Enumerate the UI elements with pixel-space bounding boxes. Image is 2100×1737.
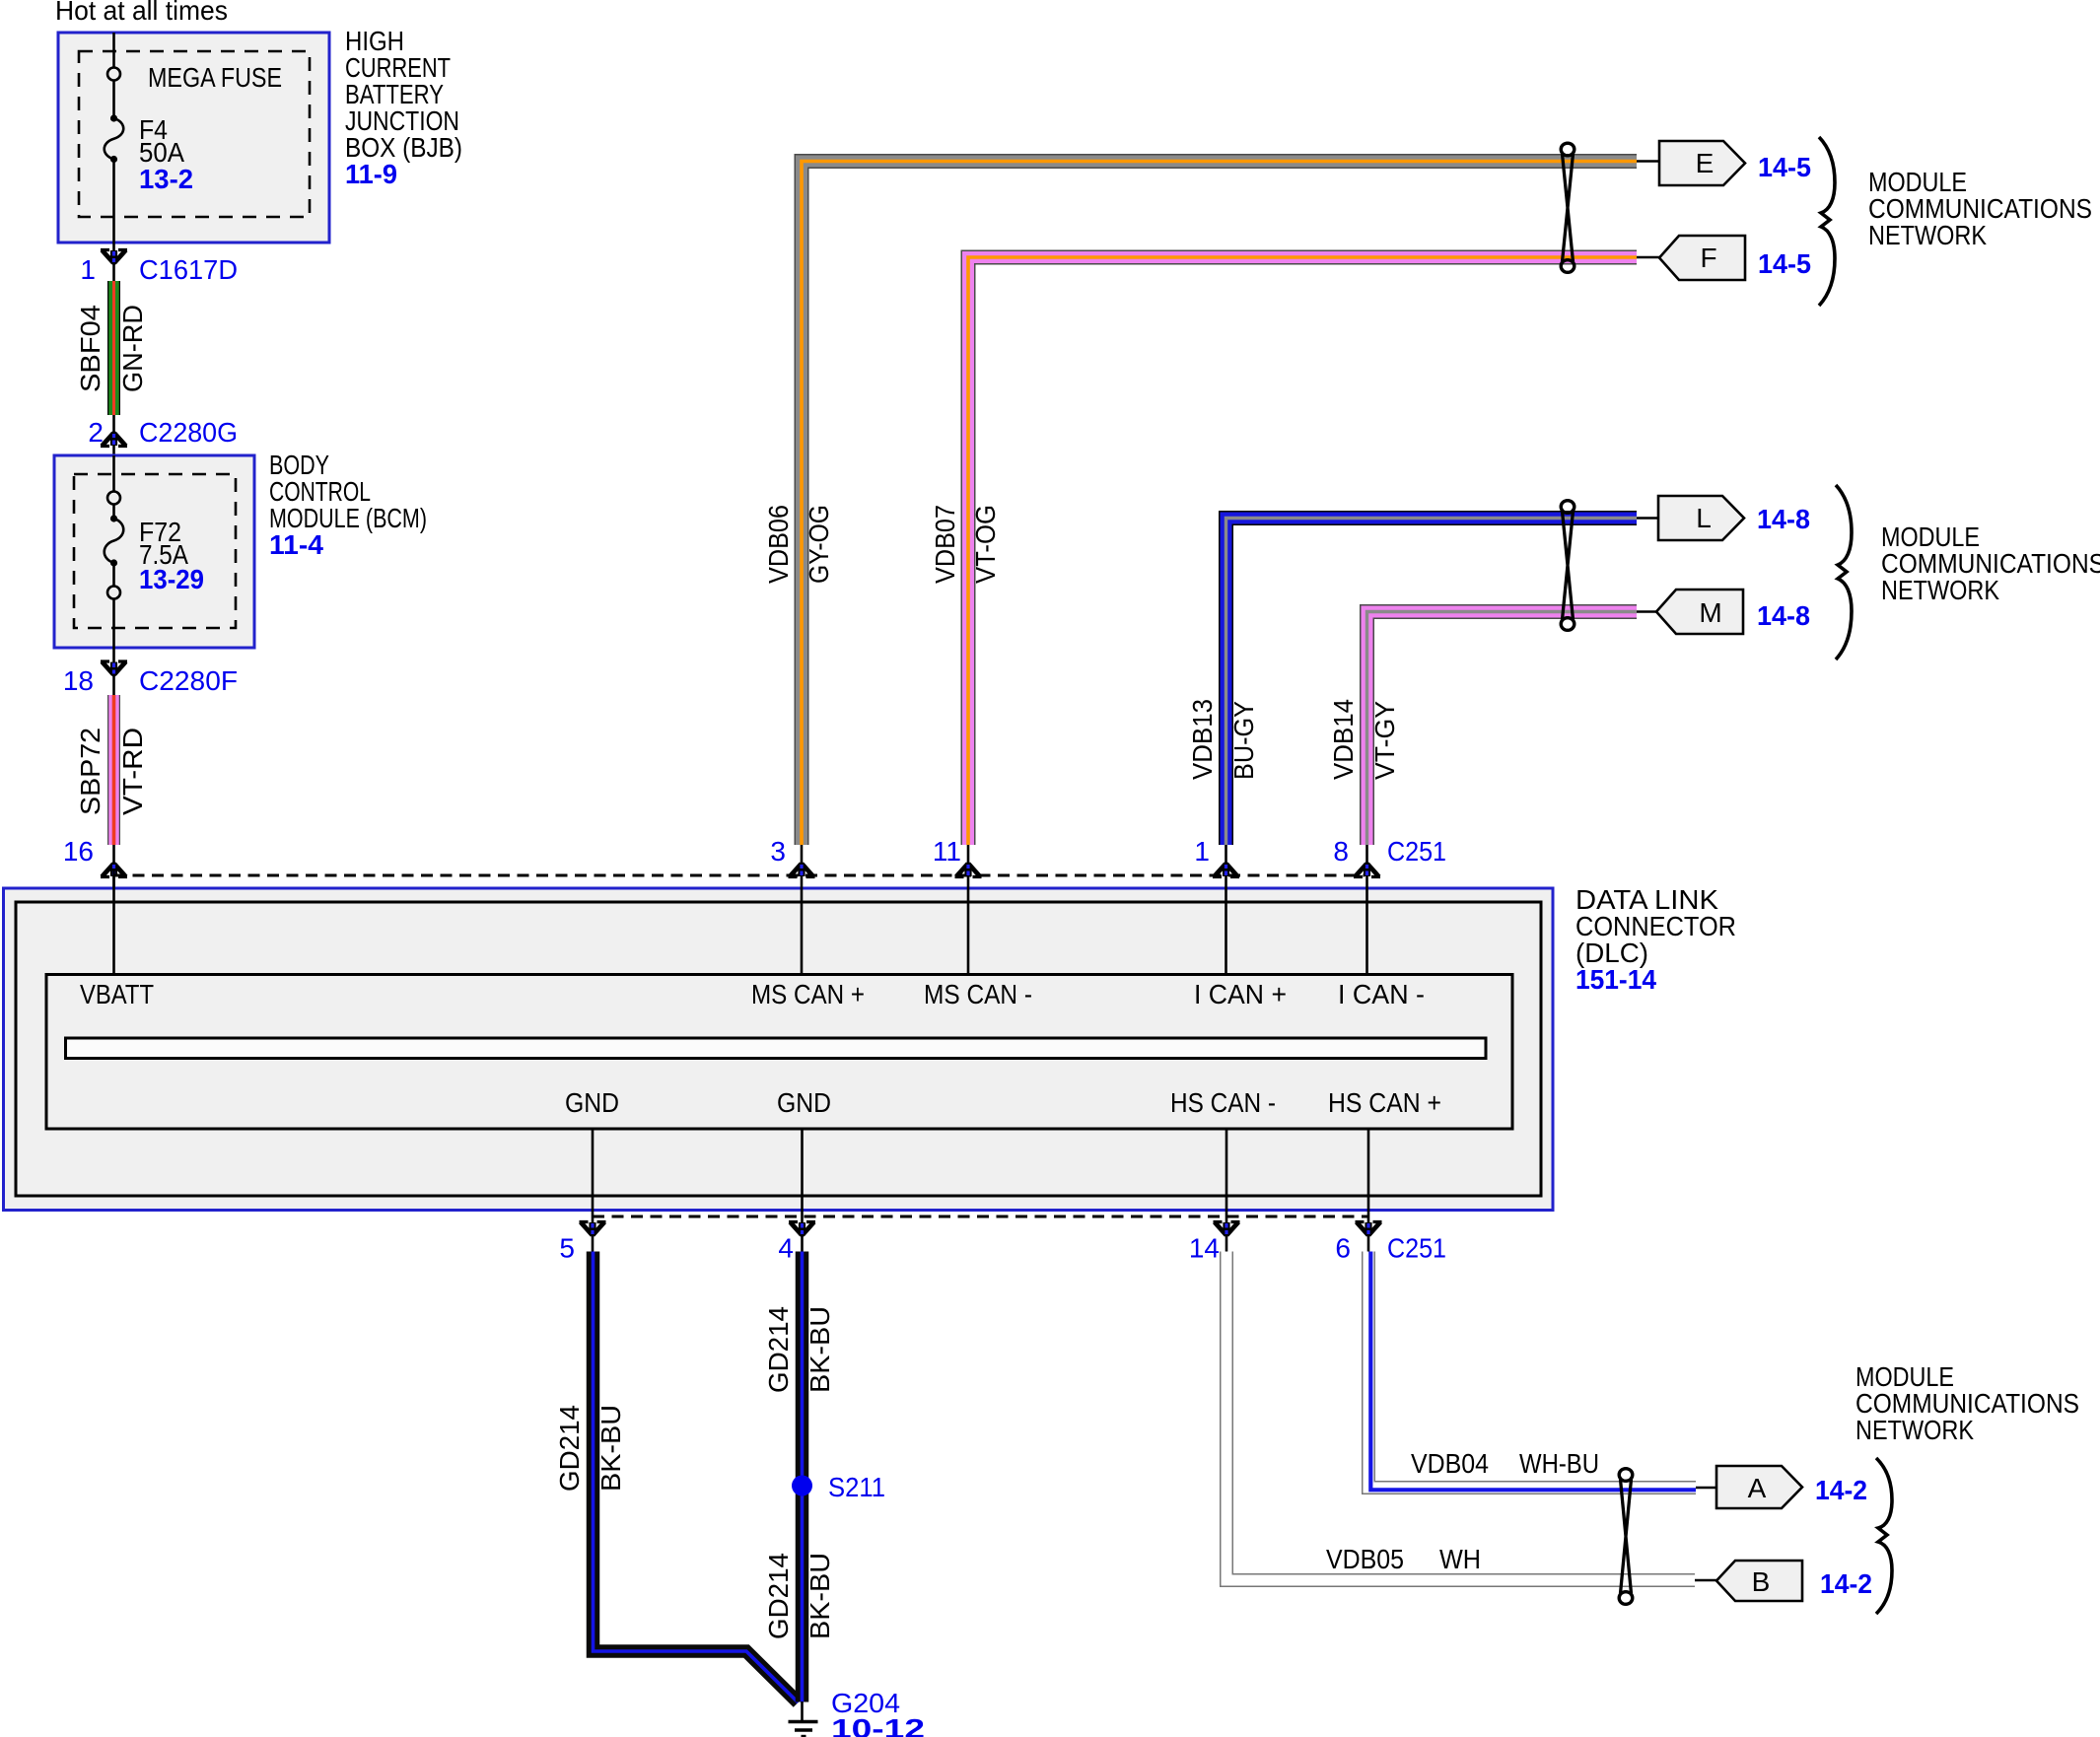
svg-text:A: A	[1748, 1473, 1767, 1503]
svg-text:HS CAN -: HS CAN -	[1170, 1087, 1276, 1118]
svg-text:16: 16	[63, 836, 94, 867]
svg-text:18: 18	[63, 665, 94, 696]
svg-text:11-9: 11-9	[345, 159, 397, 189]
svg-text:I CAN +: I CAN +	[1194, 979, 1287, 1009]
svg-text:MS CAN -: MS CAN -	[924, 979, 1032, 1009]
svg-text:VDB13: VDB13	[1187, 699, 1218, 780]
svg-text:4: 4	[778, 1233, 794, 1264]
svg-text:3: 3	[770, 836, 786, 867]
svg-text:2: 2	[88, 417, 104, 448]
svg-text:VT-GY: VT-GY	[1369, 701, 1400, 780]
svg-text:Hot at all times: Hot at all times	[55, 0, 228, 26]
svg-text:WH: WH	[1439, 1544, 1481, 1574]
svg-text:14-2: 14-2	[1815, 1475, 1867, 1505]
svg-text:WH-BU: WH-BU	[1519, 1448, 1599, 1479]
svg-text:GD214: GD214	[763, 1306, 794, 1393]
svg-text:S211: S211	[828, 1472, 885, 1502]
svg-text:13-29: 13-29	[139, 564, 204, 594]
svg-text:11-4: 11-4	[269, 529, 323, 560]
svg-text:E: E	[1696, 148, 1715, 178]
svg-text:VDB05: VDB05	[1326, 1544, 1404, 1574]
svg-text:10-12: 10-12	[831, 1713, 925, 1737]
svg-text:BK-BU: BK-BU	[595, 1405, 626, 1492]
svg-text:11: 11	[933, 836, 961, 867]
svg-text:14-2: 14-2	[1820, 1568, 1872, 1599]
svg-text:HS CAN +: HS CAN +	[1328, 1087, 1441, 1118]
svg-text:GND: GND	[777, 1087, 831, 1118]
svg-text:VT-OG: VT-OG	[970, 505, 1001, 584]
svg-text:6: 6	[1335, 1233, 1351, 1264]
svg-text:L: L	[1696, 503, 1712, 533]
svg-text:VDB14: VDB14	[1328, 699, 1359, 780]
svg-text:SBF04: SBF04	[75, 305, 105, 392]
svg-text:BU-GY: BU-GY	[1228, 701, 1259, 780]
svg-text:GD214: GD214	[554, 1405, 585, 1492]
svg-text:C2280G: C2280G	[139, 417, 238, 448]
svg-text:C2280F: C2280F	[139, 665, 238, 696]
svg-text:NETWORK: NETWORK	[1855, 1415, 1974, 1445]
svg-text:M: M	[1699, 597, 1721, 628]
svg-text:1: 1	[1194, 836, 1210, 867]
svg-text:14-5: 14-5	[1758, 152, 1811, 182]
svg-text:1: 1	[80, 254, 96, 285]
svg-text:B: B	[1752, 1566, 1771, 1597]
svg-text:NETWORK: NETWORK	[1868, 220, 1987, 250]
svg-text:VDB07: VDB07	[930, 505, 960, 584]
svg-text:C251: C251	[1387, 836, 1446, 867]
svg-text:BK-BU: BK-BU	[805, 1553, 835, 1639]
svg-text:8: 8	[1333, 836, 1349, 867]
svg-text:151-14: 151-14	[1575, 964, 1656, 995]
svg-text:MS CAN +: MS CAN +	[751, 979, 865, 1009]
svg-text:14-5: 14-5	[1758, 248, 1811, 279]
svg-text:C251: C251	[1387, 1233, 1446, 1264]
svg-text:SBP72: SBP72	[75, 728, 105, 815]
svg-text:GY-OG: GY-OG	[804, 505, 834, 584]
svg-text:I CAN -: I CAN -	[1338, 979, 1425, 1009]
svg-text:GN-RD: GN-RD	[117, 305, 148, 392]
svg-text:14: 14	[1189, 1233, 1220, 1264]
svg-text:VT-RD: VT-RD	[117, 728, 148, 815]
svg-text:C1617D: C1617D	[139, 254, 238, 285]
svg-text:MEGA FUSE: MEGA FUSE	[148, 62, 282, 93]
svg-text:14-8: 14-8	[1757, 600, 1810, 631]
svg-text:BK-BU: BK-BU	[805, 1306, 835, 1393]
svg-text:NETWORK: NETWORK	[1881, 575, 1999, 605]
svg-text:GD214: GD214	[763, 1553, 794, 1639]
svg-text:F: F	[1700, 243, 1716, 273]
svg-text:VDB04: VDB04	[1411, 1448, 1489, 1479]
svg-text:VBATT: VBATT	[80, 979, 154, 1009]
svg-text:VDB06: VDB06	[763, 505, 794, 584]
svg-text:GND: GND	[565, 1087, 619, 1118]
svg-text:14-8: 14-8	[1757, 504, 1810, 534]
svg-text:13-2: 13-2	[139, 164, 193, 194]
svg-text:5: 5	[559, 1233, 575, 1264]
